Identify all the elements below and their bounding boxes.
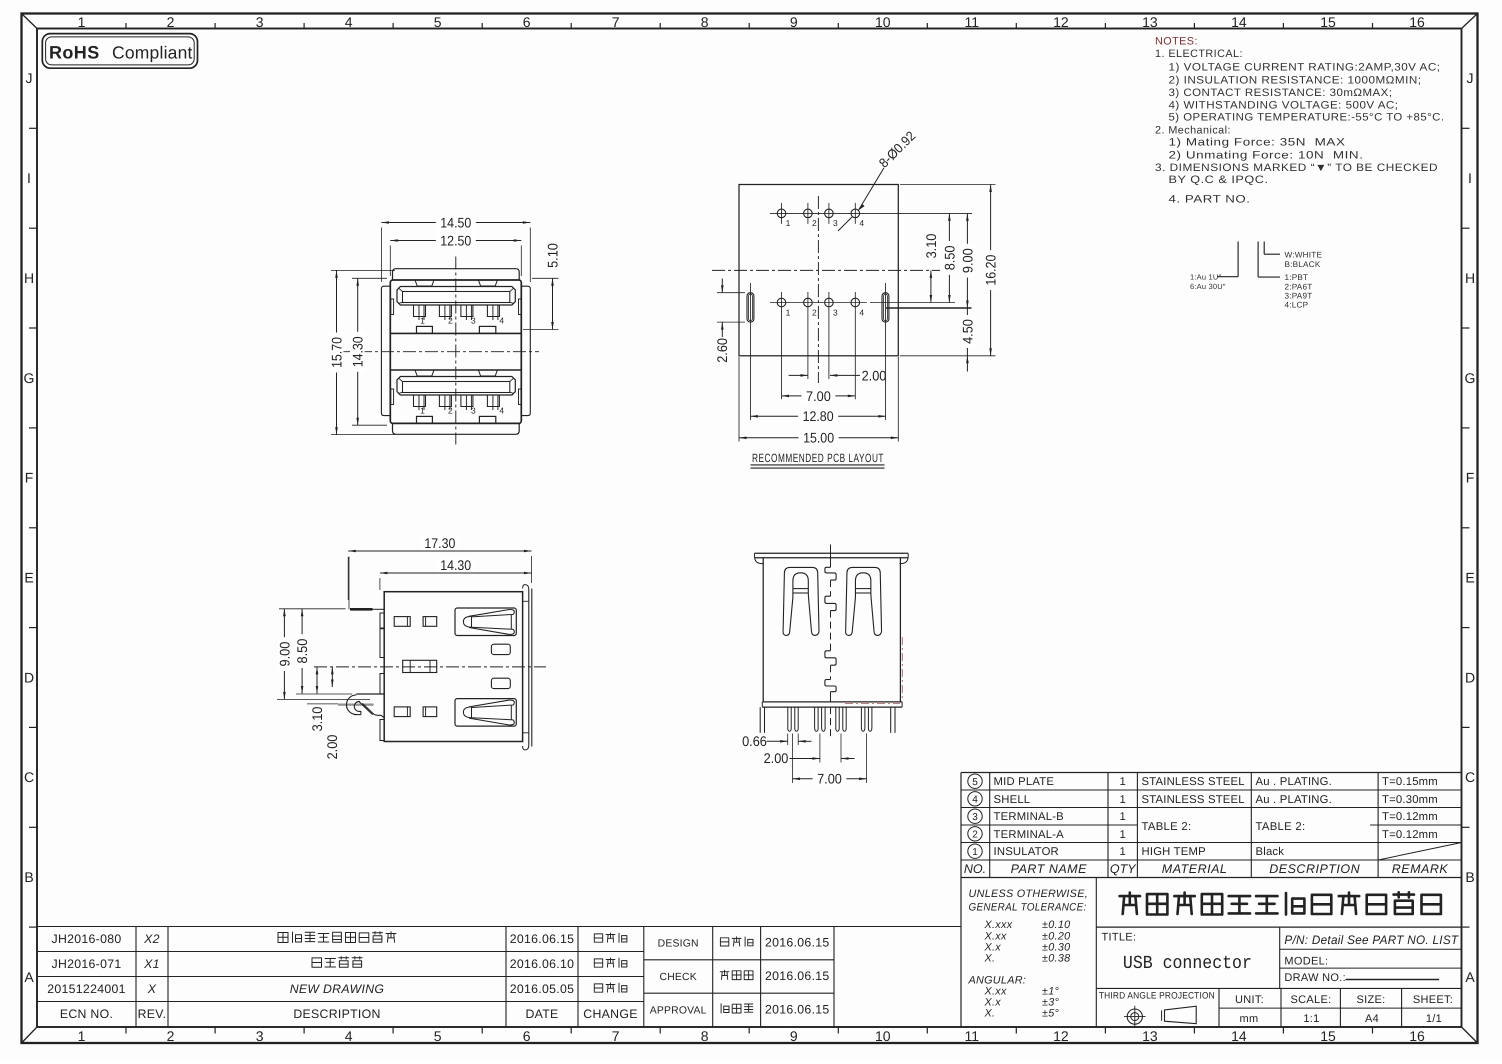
svg-text:CHECK: CHECK — [660, 972, 697, 983]
svg-text:3: 3 — [471, 405, 476, 415]
svg-text:9: 9 — [790, 1028, 798, 1044]
svg-text:Black: Black — [1256, 846, 1285, 858]
svg-text:PART NAME: PART NAME — [1011, 862, 1087, 876]
svg-text:T=0.12mm: T=0.12mm — [1382, 829, 1438, 841]
svg-text:QTY: QTY — [1110, 862, 1137, 876]
svg-text:3.10: 3.10 — [309, 706, 325, 731]
svg-text:2.00: 2.00 — [862, 367, 887, 383]
svg-text:10: 10 — [875, 14, 891, 30]
svg-text:4.50: 4.50 — [959, 319, 975, 344]
svg-text:ECN NO.: ECN NO. — [60, 1007, 113, 1021]
svg-text:SHEET:: SHEET: — [1413, 994, 1453, 1006]
svg-text:D: D — [24, 669, 34, 685]
svg-text:Compliant: Compliant — [112, 42, 193, 62]
svg-text:1: 1 — [1120, 846, 1126, 858]
svg-text:1:1: 1:1 — [1303, 1013, 1319, 1025]
svg-text:6: 6 — [523, 14, 531, 30]
svg-text:4: 4 — [859, 218, 864, 228]
svg-text:15.00: 15.00 — [803, 430, 834, 446]
svg-text:SHELL: SHELL — [994, 794, 1031, 806]
svg-text:2016.06.15: 2016.06.15 — [510, 932, 575, 946]
svg-text:APPROVAL: APPROVAL — [650, 1005, 707, 1016]
svg-text:NO.: NO. — [964, 862, 986, 876]
svg-text:1: 1 — [1120, 776, 1126, 788]
svg-text:SIZE:: SIZE: — [1356, 994, 1385, 1006]
svg-text:T=0.12mm: T=0.12mm — [1382, 811, 1438, 823]
svg-text:J: J — [26, 70, 33, 86]
svg-text:X.: X. — [984, 953, 996, 965]
svg-text:CHANGE: CHANGE — [583, 1007, 637, 1021]
svg-text:2016.05.05: 2016.05.05 — [510, 982, 575, 996]
svg-text:0.66: 0.66 — [742, 733, 767, 749]
svg-text:1) Mating Force: 35N MAX: 1) Mating Force: 35N MAX — [1169, 137, 1346, 149]
svg-text:2. Mechanical:: 2. Mechanical: — [1155, 124, 1231, 136]
svg-text:12.80: 12.80 — [803, 408, 834, 424]
svg-text:4: 4 — [859, 307, 864, 317]
svg-text:4: 4 — [345, 1028, 353, 1044]
svg-text:X1: X1 — [143, 957, 160, 971]
svg-text:REV.: REV. — [138, 1007, 167, 1021]
svg-text:2.00: 2.00 — [764, 750, 789, 766]
svg-text:2: 2 — [972, 830, 978, 841]
svg-text:JH2016-080: JH2016-080 — [52, 932, 122, 946]
svg-text:3. DIMENSIONS MARKED “▼” TO BE: 3. DIMENSIONS MARKED “▼” TO BE CHECKED — [1155, 162, 1438, 174]
svg-text:14.30: 14.30 — [440, 557, 471, 573]
svg-text:6:Au 30U″: 6:Au 30U″ — [1190, 282, 1226, 291]
svg-text:1:Au 1U″: 1:Au 1U″ — [1190, 273, 1221, 282]
svg-text:DATE: DATE — [525, 1007, 558, 1021]
svg-text:1: 1 — [420, 315, 425, 325]
svg-text:REMARK: REMARK — [1392, 862, 1449, 876]
svg-text:1: 1 — [786, 218, 791, 228]
svg-text:2:PA6T: 2:PA6T — [1285, 282, 1313, 291]
svg-text:C: C — [1465, 769, 1475, 785]
svg-text:3.10: 3.10 — [923, 233, 939, 258]
svg-text:1: 1 — [786, 307, 791, 317]
svg-text:3: 3 — [256, 14, 264, 30]
svg-text:2016.06.10: 2016.06.10 — [510, 957, 575, 971]
svg-text:8: 8 — [701, 1028, 709, 1044]
svg-text:5) OPERATING TEMPERATURE:-55°C: 5) OPERATING TEMPERATURE:-55°C TO +85°C. — [1169, 112, 1445, 124]
svg-text:11: 11 — [965, 1028, 980, 1044]
svg-text:J: J — [1467, 70, 1474, 86]
svg-text:DRAW NO.:: DRAW NO.: — [1284, 972, 1346, 984]
svg-text:1: 1 — [1120, 829, 1126, 841]
svg-text:T=0.30mm: T=0.30mm — [1382, 794, 1438, 806]
svg-text:F: F — [1466, 470, 1475, 486]
svg-text:1: 1 — [972, 847, 978, 858]
svg-text:I: I — [1468, 170, 1472, 186]
svg-text:I: I — [27, 170, 31, 186]
svg-text:USB connector: USB connector — [1123, 953, 1252, 974]
svg-text:2: 2 — [167, 1028, 175, 1044]
svg-text:RoHS: RoHS — [49, 42, 100, 62]
svg-text:20151224001: 20151224001 — [47, 982, 126, 996]
svg-text:5.10: 5.10 — [544, 243, 560, 268]
svg-text:17.30: 17.30 — [424, 535, 455, 551]
svg-text:TERMINAL-A: TERMINAL-A — [994, 829, 1065, 841]
svg-text:4:LCP: 4:LCP — [1285, 301, 1309, 310]
svg-text:1: 1 — [1120, 794, 1126, 806]
svg-text:X.: X. — [984, 1008, 996, 1020]
svg-text:1: 1 — [78, 14, 86, 30]
svg-text:13: 13 — [1142, 14, 1158, 30]
svg-text:15: 15 — [1320, 1028, 1336, 1044]
svg-text:X.xxx: X.xxx — [984, 919, 1013, 931]
svg-text:9: 9 — [790, 14, 798, 30]
svg-text:12: 12 — [1053, 1028, 1069, 1044]
svg-text:NOTES:: NOTES: — [1155, 36, 1198, 48]
svg-text:THIRD ANGLE PROJECTION: THIRD ANGLE PROJECTION — [1099, 991, 1215, 1001]
svg-text:2: 2 — [812, 307, 817, 317]
svg-text:MODEL:: MODEL: — [1284, 955, 1328, 967]
svg-text:14: 14 — [1231, 14, 1247, 30]
svg-text:B:BLACK: B:BLACK — [1285, 260, 1321, 269]
svg-text:12.50: 12.50 — [440, 232, 471, 248]
svg-text:16: 16 — [1409, 1028, 1425, 1044]
svg-text:9.00: 9.00 — [959, 248, 975, 273]
svg-text:1) VOLTAGE CURRENT RATING:2AMP: 1) VOLTAGE CURRENT RATING:2AMP,30V AC; — [1169, 61, 1441, 73]
svg-text:H: H — [1465, 270, 1475, 286]
svg-text:STAINLESS STEEL: STAINLESS STEEL — [1142, 776, 1245, 788]
svg-text:UNIT:: UNIT: — [1235, 994, 1264, 1006]
svg-text:2) Unmating Force: 10N MIN.: 2) Unmating Force: 10N MIN. — [1169, 149, 1364, 161]
svg-text:3:PA9T: 3:PA9T — [1285, 291, 1313, 300]
svg-text:8.50: 8.50 — [941, 245, 957, 270]
svg-text:14: 14 — [1231, 1028, 1247, 1044]
svg-text:3: 3 — [833, 218, 838, 228]
svg-text:1. ELECTRICAL:: 1. ELECTRICAL: — [1155, 48, 1243, 60]
svg-text:X: X — [147, 982, 157, 996]
svg-text:4) WITHSTANDING VOLTAGE: 500V: 4) WITHSTANDING VOLTAGE: 500V AC; — [1169, 100, 1399, 112]
svg-text:15: 15 — [1320, 14, 1336, 30]
svg-text:1: 1 — [78, 1028, 86, 1044]
svg-text:±0.38: ±0.38 — [1042, 953, 1070, 965]
svg-text:2) INSULATION RESISTANCE: 1000: 2) INSULATION RESISTANCE: 1000MΩMIN; — [1169, 74, 1422, 86]
svg-text:HIGH TEMP: HIGH TEMP — [1142, 846, 1206, 858]
svg-text:1: 1 — [420, 405, 425, 415]
svg-text:11: 11 — [965, 14, 980, 30]
svg-text:F: F — [25, 470, 34, 486]
svg-text:5: 5 — [434, 14, 442, 30]
svg-text:TABLE 2:: TABLE 2: — [1256, 821, 1306, 833]
svg-text:BY Q.C & IPQC.: BY Q.C & IPQC. — [1169, 174, 1269, 186]
svg-text:14.50: 14.50 — [440, 214, 471, 230]
svg-text:GENERAL TOLERANCE:: GENERAL TOLERANCE: — [969, 902, 1087, 914]
svg-text:2: 2 — [167, 14, 175, 30]
svg-text:3: 3 — [471, 315, 476, 325]
svg-text:E: E — [24, 570, 33, 586]
svg-text:NEW DRAWING: NEW DRAWING — [290, 982, 385, 996]
svg-text:4: 4 — [972, 795, 978, 806]
svg-text:2016.06.15: 2016.06.15 — [765, 936, 830, 950]
svg-text:C: C — [24, 769, 34, 785]
svg-text:7.00: 7.00 — [817, 771, 842, 787]
svg-text:16.20: 16.20 — [983, 254, 999, 285]
svg-text:1/1: 1/1 — [1426, 1013, 1442, 1025]
svg-text:7.00: 7.00 — [806, 388, 831, 404]
svg-text:1: 1 — [1120, 811, 1126, 823]
svg-text:mm: mm — [1240, 1013, 1259, 1025]
svg-text:3: 3 — [256, 1028, 264, 1044]
svg-text:2016.06.15: 2016.06.15 — [765, 969, 830, 983]
svg-text:1:PBT: 1:PBT — [1285, 273, 1309, 282]
svg-text:A: A — [1465, 969, 1475, 985]
svg-text:4: 4 — [499, 315, 504, 325]
svg-text:4: 4 — [345, 14, 353, 30]
svg-text:P/N: Detail See PART NO. LIST: P/N: Detail See PART NO. LIST — [1284, 933, 1459, 947]
svg-text:DESIGN: DESIGN — [658, 939, 699, 950]
svg-text:2: 2 — [448, 315, 453, 325]
svg-text:3: 3 — [833, 307, 838, 317]
svg-text:Au . PLATING.: Au . PLATING. — [1256, 776, 1332, 788]
svg-text:16: 16 — [1409, 14, 1425, 30]
svg-text:MATERIAL: MATERIAL — [1162, 862, 1228, 876]
svg-text:7: 7 — [612, 1028, 620, 1044]
svg-text:H: H — [24, 270, 34, 286]
svg-text:3) CONTACT RESISTANCE: 30mΩMAX: 3) CONTACT RESISTANCE: 30mΩMAX; — [1169, 87, 1393, 99]
svg-text:MID PLATE: MID PLATE — [994, 776, 1055, 788]
svg-text:B: B — [24, 869, 33, 885]
svg-text:Au . PLATING.: Au . PLATING. — [1256, 794, 1332, 806]
svg-text:G: G — [1465, 370, 1476, 386]
svg-text:A: A — [24, 969, 34, 985]
svg-text:10: 10 — [875, 1028, 891, 1044]
svg-text:7: 7 — [612, 14, 620, 30]
svg-text:2.60: 2.60 — [714, 338, 730, 363]
svg-text:W:WHITE: W:WHITE — [1285, 251, 1323, 260]
svg-text:2.00: 2.00 — [324, 734, 340, 759]
svg-text:2: 2 — [812, 218, 817, 228]
svg-text:9.00: 9.00 — [276, 642, 292, 667]
svg-text:G: G — [24, 370, 35, 386]
svg-text:13: 13 — [1142, 1028, 1158, 1044]
svg-text:14.30: 14.30 — [350, 336, 366, 367]
svg-text:UNLESS OTHERWISE,: UNLESS OTHERWISE, — [969, 888, 1089, 900]
svg-text:8: 8 — [701, 14, 709, 30]
svg-text:TERMINAL-B: TERMINAL-B — [994, 811, 1064, 823]
svg-text:4. PART NO.: 4. PART NO. — [1169, 193, 1251, 205]
svg-text:5: 5 — [434, 1028, 442, 1044]
svg-text:2: 2 — [448, 405, 453, 415]
svg-text:DESCRIPTION: DESCRIPTION — [1269, 862, 1360, 876]
svg-text:INSULATOR: INSULATOR — [994, 846, 1059, 858]
svg-text:15.70: 15.70 — [328, 337, 344, 368]
svg-text:DESCRIPTION: DESCRIPTION — [293, 1007, 380, 1021]
svg-text:T=0.15mm: T=0.15mm — [1382, 776, 1438, 788]
svg-text:RECOMMENDED PCB LAYOUT: RECOMMENDED PCB LAYOUT — [752, 451, 884, 465]
svg-text:X2: X2 — [143, 932, 160, 946]
svg-text:±0.10: ±0.10 — [1042, 919, 1070, 931]
svg-text:8.50: 8.50 — [294, 639, 310, 664]
svg-text:2016.06.15: 2016.06.15 — [765, 1002, 830, 1016]
svg-text:TABLE 2:: TABLE 2: — [1142, 821, 1192, 833]
svg-text:E: E — [1465, 570, 1474, 586]
svg-text:±5°: ±5° — [1042, 1008, 1060, 1020]
svg-text:12: 12 — [1053, 14, 1069, 30]
svg-text:STAINLESS STEEL: STAINLESS STEEL — [1142, 794, 1245, 806]
svg-text:4: 4 — [499, 405, 504, 415]
svg-text:B: B — [1465, 869, 1474, 885]
svg-text:D: D — [1465, 669, 1475, 685]
svg-text:5: 5 — [972, 777, 978, 788]
svg-text:TITLE:: TITLE: — [1102, 931, 1137, 943]
svg-text:3: 3 — [972, 812, 978, 823]
svg-text:JH2016-071: JH2016-071 — [52, 957, 122, 971]
svg-text:A4: A4 — [1365, 1013, 1379, 1025]
svg-text:6: 6 — [523, 1028, 531, 1044]
svg-text:SCALE:: SCALE: — [1291, 994, 1332, 1006]
